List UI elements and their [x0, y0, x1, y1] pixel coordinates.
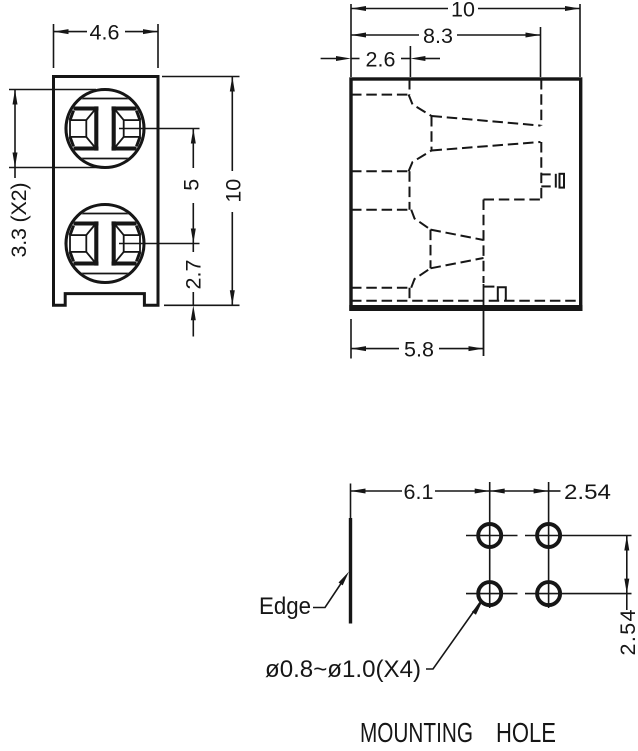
LED lens B centerline leader	[119, 243, 200, 245]
right view extension lines	[350, 4, 352, 77]
top cavity lower wall	[351, 170, 409, 172]
mounting hole 2	[537, 524, 560, 547]
top cavity cone upper	[432, 116, 541, 126]
right pocket outline	[124, 120, 140, 137]
hole diameter leader	[426, 603, 480, 670]
dim 2.6	[321, 58, 337, 60]
lead plane vertical	[540, 79, 542, 126]
dim 2.54 horizontal	[490, 490, 549, 492]
dim 10 (right view)	[351, 8, 448, 10]
feet step hidden line	[351, 300, 581, 302]
dim 10 (front) extension line top	[162, 76, 240, 78]
right pocket outline	[124, 235, 140, 252]
right bracket	[112, 222, 137, 226]
svg-text:2.7: 2.7	[182, 260, 206, 290]
top cavity cone lower	[432, 142, 541, 151]
edge extension line	[350, 484, 352, 519]
left bracket	[74, 222, 99, 226]
top cavity upper wall	[351, 94, 409, 96]
svg-text:4.6: 4.6	[90, 21, 120, 45]
svg-text:ø0.8~ø1.0(X4): ø0.8~ø1.0(X4)	[265, 656, 421, 683]
dim 5.8	[351, 348, 399, 350]
dim 4.6	[54, 31, 88, 33]
bottom cavity lower wall	[351, 287, 411, 289]
Edge leader	[313, 576, 346, 608]
dim 2.7	[192, 244, 194, 253]
bottom cavity cone lower	[431, 258, 484, 268]
svg-text:5.8: 5.8	[404, 338, 434, 362]
svg-text:2.54: 2.54	[564, 480, 611, 504]
LED lens B (bottom)	[66, 205, 144, 283]
dim 4.6 extension lines	[53, 24, 55, 68]
front view body outline	[54, 77, 159, 306]
lead pocket hidden edges	[483, 200, 485, 284]
svg-text:2.54: 2.54	[616, 609, 638, 655]
dim 2.54 vertical	[626, 536, 628, 611]
upper lead pin	[555, 174, 557, 188]
dim 5.8 extension lines	[350, 319, 352, 359]
right view box	[351, 79, 581, 309]
step hidden edge verticals	[409, 79, 411, 95]
dim 3.3(X2) extension lines	[9, 89, 96, 91]
top cavity lens rear face	[431, 116, 433, 151]
left pocket outline	[70, 235, 86, 252]
hole row centerline 2	[466, 593, 518, 595]
dim 8.3	[351, 34, 419, 36]
feet bottom extension line	[164, 304, 240, 306]
dim 5	[192, 129, 194, 169]
svg-text:2.6: 2.6	[366, 48, 396, 72]
dim 10 (front)	[231, 77, 233, 172]
svg-text:10: 10	[451, 0, 475, 22]
mounting hole 4	[537, 582, 560, 605]
hole column centerline 1	[489, 482, 491, 608]
svg-text:MOUNTING: MOUNTING	[360, 717, 473, 746]
dim 3.3(X2)	[14, 90, 16, 179]
left pocket outline	[70, 120, 86, 137]
svg-text:10: 10	[221, 179, 245, 203]
LED lens A centerline leader	[119, 128, 200, 130]
svg-text:6.1: 6.1	[404, 480, 434, 504]
svg-text:3.3 (X2): 3.3 (X2)	[7, 183, 31, 258]
right bracket	[112, 107, 137, 111]
svg-text:HOLE: HOLE	[496, 717, 556, 746]
svg-text:Edge: Edge	[259, 593, 311, 620]
dim 6.1	[351, 490, 403, 492]
bottom cavity upper wall	[351, 209, 411, 211]
svg-text:8.3: 8.3	[423, 24, 453, 48]
LED lens A (top)	[66, 90, 144, 168]
left bracket	[74, 107, 99, 111]
bottom cavity cone upper	[431, 230, 484, 240]
svg-text:5: 5	[179, 179, 203, 191]
mounting hole 1	[478, 524, 501, 547]
bottom cavity lens rear face	[430, 230, 432, 269]
hole row centerline 1	[466, 535, 518, 537]
lower lead foot	[484, 286, 495, 288]
mounting hole 3	[478, 582, 501, 605]
PCB edge line	[349, 518, 352, 624]
hole column centerline 2	[548, 482, 550, 608]
upper lead slot	[541, 173, 550, 175]
